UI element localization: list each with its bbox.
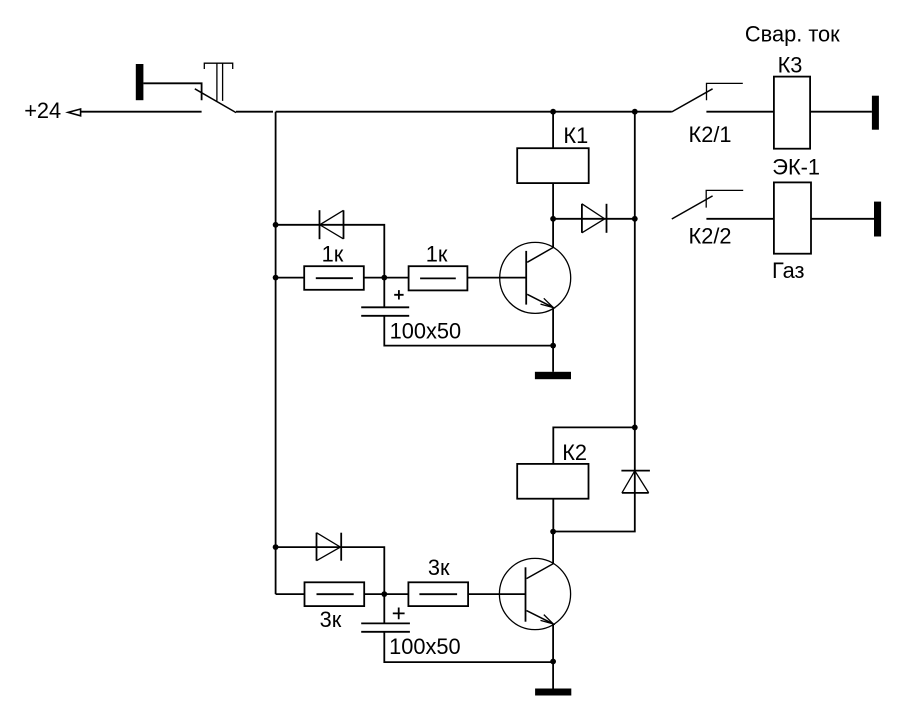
wire VD3 branch lower <box>553 493 635 532</box>
node dot VD2 / middle rail <box>632 216 638 222</box>
wire VD1 to node R1-R2 <box>344 225 385 278</box>
node dot K2 bottom / VD3 <box>550 529 556 535</box>
diode VD1 <box>319 210 321 239</box>
resistor R4 3k <box>408 582 468 606</box>
relay EK-1 coil <box>774 182 811 253</box>
wire relay EK-1 to terminal <box>811 218 874 220</box>
svg-text:Газ: Газ <box>772 258 804 283</box>
svg-text:1к: 1к <box>426 241 448 266</box>
svg-text:100x50: 100x50 <box>390 318 462 343</box>
wire node to capacitor C1 <box>383 278 385 308</box>
wire middle rail to relay K2 <box>553 427 635 464</box>
node dot R3-R4 / C2 <box>381 591 387 597</box>
svg-text:К2/1: К2/1 <box>689 122 732 147</box>
wire Q1 collector <box>552 219 554 248</box>
resistor R1 1k <box>304 266 364 290</box>
svg-text:ЭК-1: ЭК-1 <box>772 154 820 179</box>
node dot Q1 emitter <box>550 343 556 349</box>
wire C2 to Q2 emitter node <box>384 632 553 662</box>
wire contact K2/1 to relay K3 <box>706 111 774 113</box>
transistor Q1 <box>500 242 571 313</box>
svg-text:100x50: 100x50 <box>389 634 461 659</box>
relay K1 coil <box>517 148 589 183</box>
wire VD2 to middle rail <box>607 218 635 220</box>
label C1 polarity + <box>394 290 403 299</box>
svg-text:3к: 3к <box>320 607 342 632</box>
wire node to capacitor C2 <box>383 594 385 623</box>
svg-text:Свар. ток: Свар. ток <box>745 21 840 46</box>
pushbutton SB1 blade <box>195 89 236 113</box>
wire bus to relay K1 <box>552 112 554 149</box>
wire left vertical rail <box>275 112 277 594</box>
pushbutton SB1 plunger stems <box>217 63 223 101</box>
node dot middle rail / K2 <box>632 425 638 431</box>
wire relay K3 to terminal <box>810 111 872 113</box>
wire R1 to R2 <box>364 277 409 279</box>
node dot left rail / VD4 <box>273 544 279 550</box>
wire emitter node to ground <box>552 346 554 372</box>
terminal bar (Svar. tok output) <box>872 96 879 130</box>
ground GND2 <box>535 689 571 696</box>
pushbutton SB1 plunger bracket <box>204 63 232 69</box>
wire button to left rail <box>236 111 273 113</box>
node dot left rail / VD1 <box>273 222 279 228</box>
relay K2 coil <box>517 464 588 499</box>
diode VD3 <box>621 470 650 472</box>
contact K2/2 fixed contact <box>706 190 743 207</box>
node dot bus / K1 <box>550 109 556 115</box>
svg-text:К1: К1 <box>563 123 588 148</box>
wire diode VD2 row <box>553 218 606 220</box>
svg-text:К2/2: К2/2 <box>689 224 732 249</box>
svg-text:3к: 3к <box>428 555 450 580</box>
relay K3 coil <box>774 77 810 149</box>
wire C1 to Q1 emitter node <box>384 316 553 346</box>
node dot left rail / R1 <box>273 275 279 281</box>
node dot R1-R2 / C1 <box>381 275 387 281</box>
wire Q2 collector <box>552 532 554 564</box>
wire R4 to Q2 base <box>468 593 525 595</box>
wire main bus <box>276 111 672 113</box>
wire left rail to R1 <box>276 277 305 279</box>
wire middle vertical rail <box>634 112 636 428</box>
wire Q1 emitter <box>552 308 554 346</box>
transistor Q2 <box>499 558 570 629</box>
contact K2/1 fixed contact <box>707 83 743 100</box>
wire +24 to button <box>80 111 201 113</box>
wire diode VD4 row <box>276 546 342 548</box>
pushbutton SB1 link wire <box>143 83 201 100</box>
pushbutton SB1 terminal plate <box>136 64 144 100</box>
resistor R2 1k <box>409 266 468 290</box>
wire relay K2 to node VD3 <box>552 499 554 532</box>
wire Q2 emitter <box>552 624 554 662</box>
label C2 polarity + <box>393 608 405 620</box>
power arrow (+24 supply) <box>68 109 81 116</box>
terminal bar (Gaz output) <box>874 202 881 237</box>
ground GND1 <box>535 372 571 379</box>
node dot Q2 emitter <box>550 659 556 665</box>
wire R3 to R4 <box>364 593 408 595</box>
wire R2 to Q1 base <box>467 277 526 279</box>
svg-text:1к: 1к <box>322 241 344 266</box>
resistor R3 3k <box>305 582 365 606</box>
svg-text:К3: К3 <box>778 53 803 78</box>
wire left rail to R3 <box>276 593 305 595</box>
svg-text:К2: К2 <box>562 440 587 465</box>
node dot bus / middle rail <box>632 109 638 115</box>
wire VD4 to node R3-R4 <box>341 547 384 594</box>
wire VD3 branch upper <box>634 427 636 493</box>
contact K2/2 blade <box>672 196 713 219</box>
svg-text:+24: +24 <box>24 98 61 123</box>
diode VD2 <box>582 204 605 233</box>
wire emitter node to ground 2 <box>552 662 554 689</box>
wire contact K2/2 to relay EK-1 <box>706 218 774 220</box>
contact K2/1 blade <box>672 89 713 112</box>
wire relay K1 to node VD2 <box>552 183 554 219</box>
capacitor C2 <box>361 622 410 624</box>
diode VD4 <box>317 533 341 561</box>
wire diode VD1 row <box>276 224 344 226</box>
capacitor C1 <box>361 306 409 308</box>
node dot K1 bottom / VD2 <box>550 216 556 222</box>
